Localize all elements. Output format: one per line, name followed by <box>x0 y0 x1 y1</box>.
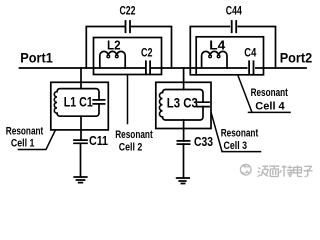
svg-text:L4: L4 <box>209 39 225 53</box>
svg-text:Port2: Port2 <box>280 50 313 66</box>
svg-text:Resonant: Resonant <box>115 129 153 141</box>
svg-text:C4: C4 <box>244 48 256 60</box>
svg-text:L1 C1: L1 C1 <box>64 94 93 110</box>
svg-text:C22: C22 <box>120 4 136 18</box>
svg-text:Cell 1: Cell 1 <box>11 137 35 149</box>
svg-text:C33: C33 <box>194 134 213 149</box>
svg-text:Resonant: Resonant <box>221 128 259 140</box>
svg-text:L2: L2 <box>107 38 121 52</box>
svg-text:C2: C2 <box>141 48 153 60</box>
svg-text:C11: C11 <box>89 133 108 148</box>
svg-text:Cell 4: Cell 4 <box>255 101 285 113</box>
svg-text:Resonant: Resonant <box>251 87 289 99</box>
svg-text:Resonant: Resonant <box>6 126 44 138</box>
svg-text:Port1: Port1 <box>20 49 53 65</box>
svg-text:L3 C3: L3 C3 <box>167 95 198 111</box>
svg-text:Cell 3: Cell 3 <box>224 140 248 152</box>
svg-text:Cell 2: Cell 2 <box>119 142 143 154</box>
svg-text:C44: C44 <box>226 4 242 18</box>
